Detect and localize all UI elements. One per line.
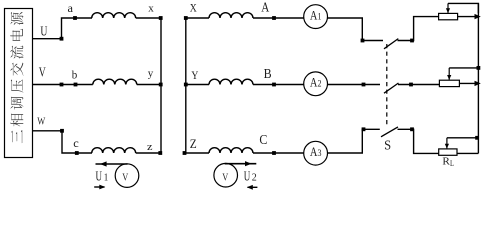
junction rheostat 3 wiper/rail — [475, 136, 479, 140]
svg-text:V: V — [222, 171, 228, 183]
winding A (secondary phase A) — [209, 13, 253, 18]
wire coil to z — [136, 152, 161, 154]
wire winding to node B — [253, 84, 304, 86]
wire rheostat 3 to rail bottom — [457, 152, 478, 154]
svg-text:S: S — [384, 137, 391, 152]
rheostat 1 wiper arrow — [447, 3, 449, 13]
wire V stub — [33, 84, 93, 86]
ammeter A3 — [304, 141, 328, 165]
node A — [272, 16, 276, 20]
wire A2 to switch pole 2 — [328, 84, 381, 86]
wire X rail to winding row 2 — [186, 84, 209, 86]
svg-text:2: 2 — [252, 172, 257, 184]
rheostat 3 body — [439, 149, 457, 155]
wire A1 to switch pole 1 — [328, 18, 384, 41]
node c — [75, 151, 79, 155]
svg-text:C: C — [259, 132, 267, 147]
primary star rail x-y-z — [160, 18, 162, 153]
node x — [159, 16, 163, 20]
wire winding to node A — [253, 17, 304, 19]
junction corner W — [60, 129, 64, 133]
switch pole 2 right contact — [409, 83, 413, 87]
winding B (secondary phase B) — [209, 79, 253, 84]
svg-text:U: U — [40, 25, 47, 40]
svg-text:c: c — [73, 136, 79, 150]
junction V column — [60, 83, 64, 87]
svg-text:2: 2 — [318, 79, 322, 89]
node b — [74, 83, 78, 87]
wire switch pole 3 right — [398, 129, 440, 153]
wire U stub — [33, 18, 92, 39]
svg-text:A: A — [261, 0, 269, 15]
switch blade 3 — [381, 127, 398, 137]
node z — [158, 151, 162, 155]
wire rheostat 1 wiper to rail — [448, 3, 478, 13]
load common rail — [477, 3, 479, 153]
switch pole 3 right contact — [410, 127, 414, 131]
wire coil to y — [137, 84, 161, 86]
ammeter A1 — [304, 5, 328, 29]
svg-text:Y: Y — [191, 68, 198, 82]
svg-text:U: U — [244, 170, 251, 185]
wire winding to node C — [253, 152, 304, 154]
svg-text:X: X — [190, 1, 197, 15]
winding a-x (primary phase A) — [92, 13, 136, 18]
svg-text:B: B — [264, 66, 272, 81]
svg-text:W: W — [37, 115, 45, 127]
ammeter A2 — [304, 72, 328, 96]
junction corner U — [60, 37, 64, 41]
wire A3 to switch pole 3 — [328, 129, 380, 153]
svg-text:1: 1 — [104, 172, 109, 184]
svg-text:a: a — [68, 1, 74, 15]
svg-text:3: 3 — [318, 148, 322, 158]
node X — [184, 16, 188, 20]
svg-text:V: V — [122, 171, 128, 183]
arrow U1 (lower, pointing right) — [94, 186, 104, 188]
svg-text:y: y — [148, 68, 154, 80]
winding c-z (primary phase C) — [92, 148, 136, 153]
wire X rail to winding row 1 — [186, 17, 209, 19]
wire switch pole 1 right — [398, 17, 439, 41]
node Z — [183, 151, 187, 155]
svg-text:x: x — [148, 2, 154, 14]
rheostat 3 wiper arrow — [446, 138, 448, 149]
wire coil to x — [136, 17, 161, 19]
rheostat 2 wiper arrow — [448, 68, 450, 80]
voltmeter V1 — [115, 164, 139, 188]
rheostat 2 body — [439, 80, 459, 86]
winding b-y (primary phase B) — [93, 79, 137, 84]
node Y — [184, 83, 188, 87]
node a — [73, 16, 77, 20]
svg-text:b: b — [72, 67, 78, 81]
svg-text:Z: Z — [190, 136, 197, 151]
svg-text:z: z — [147, 141, 153, 153]
winding C (secondary phase C) — [209, 148, 253, 153]
switch pole 1 left contact — [361, 39, 365, 43]
wire W stub — [33, 131, 92, 153]
switch pole 2 left contact — [362, 83, 366, 87]
svg-text:V: V — [39, 66, 46, 81]
wire rheostat 2 to rail (arrow junction) — [459, 82, 478, 84]
wire X rail to winding row 3 — [186, 152, 209, 154]
wire switch pole 2 right — [398, 84, 439, 86]
switch linkage (dashed) — [386, 44, 388, 128]
source box label 三相调压交流电源 (rotated) — [10, 12, 23, 143]
node C — [272, 151, 276, 155]
arrow U1 (upper, pointing left) — [96, 163, 128, 165]
switch pole 1 right contact — [410, 39, 414, 43]
node y — [159, 83, 163, 87]
wire rheostat 1 to rail (arrow junction) — [458, 16, 479, 18]
arrow U2 (upper, pointing right) — [225, 163, 257, 165]
switch blade 1 — [384, 39, 398, 49]
svg-text:U: U — [96, 170, 103, 185]
node B — [272, 83, 276, 87]
switch pole 3 left contact — [362, 127, 366, 131]
junction rheostat 2 wiper/rail — [477, 66, 481, 70]
wire rheostat 2 wiper to rail — [449, 67, 478, 69]
secondary star rail X-Y-Z — [185, 18, 187, 153]
arrow U2 (lower, pointing left) — [248, 186, 258, 188]
switch blade 2 — [384, 83, 399, 93]
svg-text:1: 1 — [318, 11, 322, 21]
three-phase adjustable AC source box — [5, 9, 33, 158]
wire rheostat 3 wiper to rail — [447, 137, 479, 139]
voltmeter V2 — [214, 163, 238, 187]
svg-text:L: L — [450, 159, 454, 168]
rheostat 1 body — [439, 13, 458, 19]
